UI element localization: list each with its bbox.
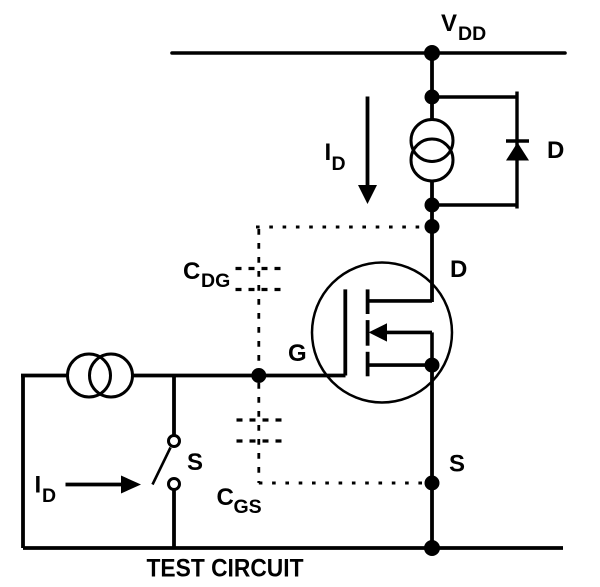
svg-text:S: S [187,449,203,476]
diode D cathode bar [506,139,529,142]
wire: left rail to current source [21,374,68,378]
dashed net: vertical through CDG, gate node, CGS [257,229,260,483]
svg-text:DG: DG [201,270,230,292]
svg-text:G: G [288,340,307,367]
node: S dotted junction [425,476,440,491]
node: gate / CDG-CGS junction [251,368,266,383]
VDD rail [172,51,565,55]
svg-text:V: V [441,10,457,37]
diode D triangle [506,143,529,161]
svg-text:TEST CIRCUIT: TEST CIRCUIT [147,555,304,583]
dotted wire: CGS to source node [259,482,424,485]
MOSFET body arrow line [386,331,432,335]
svg-text:D: D [547,137,564,164]
capacitor CGS plate 1 [237,418,282,421]
wire: switch bottom [172,490,176,548]
MOSFET body arrow head [369,323,387,341]
svg-text:D: D [42,485,56,507]
current source I (left), circle 1 [68,354,111,397]
svg-text:S: S [449,451,465,478]
svg-text:I: I [325,139,332,166]
node: CDG dotted junction on drain [425,219,440,234]
node: bottom of diode branch [425,198,440,213]
svg-text:C: C [217,484,234,511]
MOSFET channel dashes [366,289,370,314]
wire: current source bottom to lower branch node [430,181,434,228]
current source I (left), circle 2 [90,354,133,397]
wire: current source to gate [133,374,346,378]
capacitor CDG plate 2 [236,288,281,291]
svg-text:D: D [450,256,467,283]
node: source/body tie [425,358,440,373]
svg-text:I: I [35,472,42,499]
wire: rail to current source top node [430,53,434,120]
wire: drain down to MOSFET [430,227,434,303]
wire: left vertical [21,376,25,549]
arrow ID (top) head [358,185,377,204]
wire: branch diode bottom [432,203,517,206]
wire: source down to S node and bottom [430,365,434,548]
MOSFET drain tab [368,299,432,303]
wire: bottom rail [23,546,563,550]
capacitor CGS plate 2 [237,439,282,442]
wire: switch top [172,376,176,436]
dotted wire: CDG to drain node [256,226,425,229]
current source I (top), circle 2 [411,139,453,181]
switch S top contact [169,436,180,447]
MOSFET body-to-source vertical [430,332,434,365]
MOSFET gate bar [343,289,347,375]
node: rail / drain-branch junction [424,45,440,61]
wire: diode vertical [515,92,518,209]
switch S blade [153,448,171,485]
svg-text:D: D [332,153,346,175]
wire: branch to diode top [432,95,517,98]
switch S bottom contact [169,479,180,490]
arrow ID (top) shaft [366,97,370,189]
node: top of diode branch [425,90,440,105]
node: bottom junction [424,540,440,556]
MOSFET Q1 body circle [312,263,452,403]
svg-text:GS: GS [234,496,262,518]
arrow ID (bottom) head [121,476,141,494]
svg-text:C: C [183,258,200,285]
MOSFET source tab [368,363,432,367]
svg-text:DD: DD [458,23,486,45]
arrow ID (bottom) shaft [66,483,125,487]
capacitor CDG plate 1 [236,267,281,270]
current source I (top), circle 1 [411,120,453,162]
